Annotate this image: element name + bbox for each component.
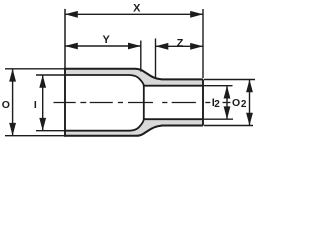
I2 dimension [212,86,231,120]
svg-text:2: 2 [214,99,220,110]
Y extension [140,41,142,72]
O bottom ext [5,135,64,137]
Y dimension [65,34,141,50]
svg-text:Z: Z [177,37,184,49]
outer top edge [64,69,203,80]
svg-text:O: O [2,99,10,111]
right end face [202,79,204,125]
inner top edge [64,75,203,86]
inner bottom edge [64,119,203,131]
left end face [64,9,66,68]
right end extension (X/Z) [202,9,204,78]
centerline [54,102,231,104]
O top ext [5,68,64,70]
I top ext [36,74,64,76]
bore (white interior) [65,75,203,131]
I dimension [34,75,46,131]
I bottom ext [36,130,64,132]
Z dimension [156,37,204,49]
svg-text:Y: Y [103,34,111,46]
svg-text:I: I [34,99,37,111]
bore step edge line [143,86,145,120]
reducer body wall (gray silhouette) [65,69,203,136]
small tube right extensions [204,79,255,81]
X dimension [65,3,203,18]
svg-text:2: 2 [241,99,247,110]
Z left extension [155,39,157,79]
extension lines [5,9,255,136]
outer bottom edge [64,126,203,136]
O2 dimension [232,80,253,126]
O dimension [2,69,16,136]
svg-text:O: O [232,97,240,109]
svg-text:X: X [133,3,141,15]
